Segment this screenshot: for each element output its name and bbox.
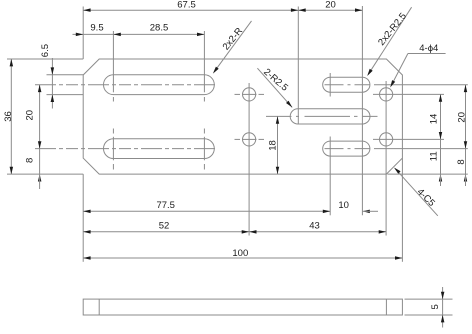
long slot lower	[103, 139, 214, 159]
leader 4-phi4 to upper right hole	[408, 53, 446, 55]
dim 20 left	[39, 85, 41, 174]
extension plate top-left to 36 dim	[7, 58, 83, 60]
dim 18	[277, 116, 279, 174]
svg-text:20: 20	[25, 110, 36, 121]
svg-text:18: 18	[267, 140, 278, 151]
dim 6.5 left	[51, 58, 53, 109]
centerline long slot lower	[35, 148, 218, 150]
centerline vertical middle-circles	[248, 83, 250, 236]
extension slot1 bottom edge left (6.5)	[47, 94, 84, 96]
dim 20 right	[465, 85, 467, 149]
extension bottom edge right (11/8 dims)	[387, 173, 467, 175]
svg-text:20: 20	[456, 112, 467, 123]
centerline long slot upper	[35, 84, 218, 86]
svg-text:5: 5	[430, 304, 441, 309]
side view plate 100x5	[83, 299, 402, 315]
crosshair middle circles horizontal	[235, 93, 241, 95]
dim 14 right	[440, 94, 442, 139]
dim 9.5	[73, 33, 205, 35]
svg-text:52: 52	[159, 221, 170, 232]
extension right edge vertical (100)	[401, 158, 403, 262]
long slot upper (9.5 from left, 28.5 long, width 6.5)	[104, 75, 215, 95]
svg-text:28.5: 28.5	[150, 23, 169, 34]
side view chamfer projection left	[98, 299, 100, 315]
svg-text:10: 10	[338, 200, 349, 211]
centerline short slot upper / right ext	[325, 84, 371, 86]
svg-text:8: 8	[25, 158, 36, 163]
svg-text:43: 43	[309, 221, 320, 232]
svg-text:6.5: 6.5	[40, 44, 51, 57]
svg-text:4-ϕ4: 4-ϕ4	[419, 43, 438, 54]
svg-text:11: 11	[428, 151, 439, 161]
leader 2-R2.5 to middle slot	[257, 68, 292, 107]
middle slot 2-R2.5	[290, 109, 370, 124]
hole upper-middle 4-phi4	[243, 88, 256, 101]
svg-text:8: 8	[456, 159, 467, 164]
short slot upper 2x2-R2.5	[323, 77, 370, 92]
extension left edge vertical (67.5 top / 100 bottom)	[82, 7, 84, 60]
svg-text:14: 14	[428, 114, 439, 125]
centerline vertical short-slot left ends	[329, 73, 331, 97]
leader 2x2-R2.5 to upper short slot	[368, 7, 411, 74]
short slot lower 2x2-R2.5	[323, 141, 370, 156]
dim 5 side view	[442, 287, 444, 299]
svg-text:67.5: 67.5	[177, 0, 196, 11]
dim 52 bottom	[83, 231, 249, 233]
dim 10 bottom	[362, 210, 369, 214]
hole lower-right 4-phi4	[380, 133, 393, 146]
svg-text:77.5: 77.5	[156, 200, 175, 211]
dim 43 bottom	[249, 231, 386, 233]
dim 20 top	[298, 9, 362, 11]
crosshair right circles horizontal to 14-dim	[373, 93, 444, 95]
plate outline (top view, 100x36 with 4-C5 chamfers)	[83, 59, 402, 174]
hole lower-middle 4-phi4	[243, 133, 256, 146]
dim 8 right	[465, 149, 467, 175]
svg-text:9.5: 9.5	[90, 23, 103, 34]
dim 8 left	[38, 174, 42, 181]
extension side view top/bottom right	[405, 298, 453, 300]
dim 67.5 top	[83, 9, 298, 11]
hole upper-right 4-phi4	[380, 88, 393, 101]
dim 11 right	[440, 139, 442, 174]
centerline vertical short/middle-slot right ends (top 20 & bottom 10 ext)	[361, 6, 363, 215]
svg-text:36: 36	[3, 111, 14, 122]
dim 36 left	[10, 59, 12, 174]
svg-text:20: 20	[325, 0, 336, 11]
centerline vertical right-circles	[385, 81, 387, 236]
extension slot1 top edge left (6.5)	[47, 74, 84, 76]
extension vertical middle-slot left end (67.5/20 ext)	[297, 7, 299, 125]
dim 77.5 bottom	[83, 210, 330, 212]
leader 2x2-R to upper long slot	[214, 21, 251, 72]
svg-text:100: 100	[232, 248, 248, 259]
centerline vertical long-slot right ends	[203, 31, 205, 92]
centerline vertical long-slot left ends	[112, 31, 114, 92]
centerline short slot lower / right ext	[325, 148, 371, 150]
dim 28.5	[197, 33, 204, 37]
side view chamfer projection right	[385, 299, 387, 315]
centerline middle slot	[266, 115, 378, 117]
dim 100 bottom	[83, 257, 402, 259]
extension plate bottom-left to 36 dim	[7, 173, 83, 175]
leader 4-C5 to bottom-right chamfer	[395, 168, 438, 215]
